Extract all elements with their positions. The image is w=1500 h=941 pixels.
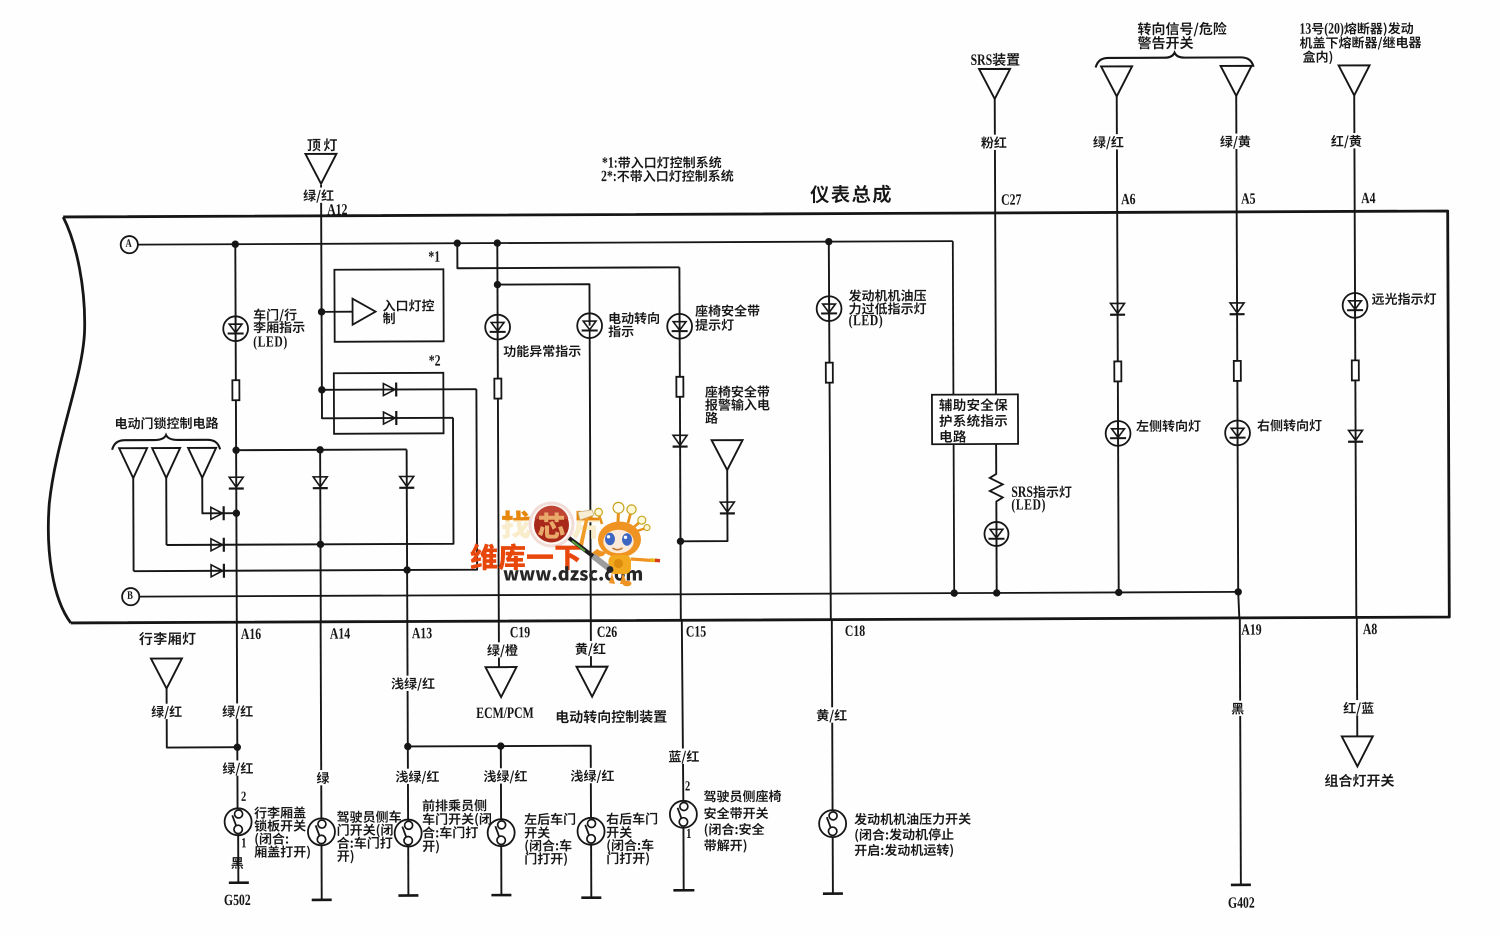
indicator LED 发动机机油压力过低指示灯	[817, 296, 842, 321]
diode D13 (high beam column)	[1348, 430, 1363, 441]
resistor seat-belt lamp	[676, 377, 683, 397]
wire left-rear branch	[500, 746, 502, 819]
wire diode-row top horizontal	[236, 448, 407, 451]
junction dot A14/row2	[317, 541, 324, 548]
ground right-rear switch	[581, 896, 601, 899]
label 电动门锁控制电路	[116, 417, 218, 430]
wire A16 to trunk switch	[236, 622, 239, 808]
indicator LED 车门/行李厢指示	[223, 316, 248, 341]
label 黑 (black wire)	[229, 855, 245, 870]
label pin A5	[1241, 193, 1255, 204]
wire A8 to combination light switch	[1356, 617, 1358, 736]
wire right-rear switch to ground	[590, 845, 592, 898]
box *1 入口灯控制	[334, 269, 443, 341]
label wire color 浅绿/红 (A13 upper)	[390, 676, 437, 692]
resistor left turn	[1114, 361, 1121, 381]
connector triangle 顶灯	[305, 154, 336, 184]
label 座椅安全带报警输入电路	[705, 385, 770, 424]
junction dot rear row / left-rear branch	[497, 742, 504, 749]
wire seat-belt input branch	[680, 470, 727, 541]
label 组合灯开关	[1325, 774, 1394, 788]
label wire color 红/蓝 (A8)	[1342, 700, 1376, 715]
diode D10 (seat belt input)	[720, 502, 735, 513]
wire C15 switch to ground	[682, 828, 684, 890]
diode D5 (*2 lower)	[383, 411, 396, 425]
node A bus terminal circle	[121, 236, 138, 253]
connector triangle turn signal right (A5)	[1221, 66, 1252, 96]
label wire color 浅绿/红 (right rear)	[569, 768, 616, 784]
wire drop from *2 upper to row3	[133, 389, 477, 571]
wire trunk light branch	[167, 688, 238, 747]
switch 驾驶员侧座椅安全带开关	[670, 801, 697, 828]
wire left-rear switch to ground	[500, 846, 502, 895]
diode D3 (A13 branch)	[399, 476, 414, 487]
label pin A13	[412, 628, 432, 639]
diode D1 (A16 branch)	[229, 477, 244, 488]
label G402	[1229, 897, 1255, 908]
wire A13 switch to ground	[407, 846, 409, 895]
switch 行李厢盖锁板开关	[225, 808, 252, 835]
wire seat-belt lamp feed	[457, 242, 679, 268]
label pin A14	[330, 628, 350, 638]
wire oil-pressure LED column (C18)	[829, 242, 831, 620]
wire A6 into box	[1117, 96, 1119, 592]
switch 左后车门开关	[488, 819, 515, 846]
junction dot seat-belt input join	[677, 538, 684, 545]
watermark text 维库一下	[470, 543, 580, 570]
connector triangle SRS装置	[979, 69, 1010, 99]
resistor oil-pressure LED	[826, 363, 833, 383]
junction dot A13/row3	[403, 566, 410, 573]
wire C27 SRS feed	[995, 99, 997, 593]
brace over turn-signal connectors	[1096, 52, 1254, 67]
indicator LED 远光指示灯	[1343, 293, 1368, 318]
wire C19 to ECM	[498, 621, 500, 667]
label pin C26	[597, 626, 616, 637]
label 行李厢盖锁板开关(闭合:厢盖打开)	[254, 806, 310, 859]
switch 驾驶员侧车门开关	[308, 818, 335, 845]
resistor MIL	[494, 379, 501, 399]
label pin A12	[327, 204, 347, 214]
connector triangle 座椅安全带报警输入电路	[712, 440, 743, 470]
wire A5 into box	[1236, 96, 1238, 592]
label SRS指示灯(LED)	[1012, 486, 1072, 513]
wire C18 switch to ground	[832, 837, 834, 894]
connector triangle door-lock 3	[188, 448, 216, 478]
label wire color 浅绿/红 (left rear)	[482, 768, 529, 784]
ground left-rear switch	[491, 894, 511, 897]
label pin 1 seat-belt switch	[687, 829, 691, 838]
junction dot trunk light / A16	[234, 743, 241, 750]
label 驾驶员侧座椅安全带开关(闭合:安全带解开)	[704, 790, 781, 853]
label pin A6	[1121, 194, 1135, 205]
watermark url www.dzsc.com	[504, 566, 643, 581]
ground oil-pressure switch	[823, 892, 843, 895]
label 座椅安全带提示灯	[695, 304, 759, 331]
label SRS装置	[971, 53, 1019, 66]
resistor right turn	[1234, 361, 1241, 381]
label 辅助安全保护系统指示电路	[939, 398, 1007, 443]
wire *2 lower diode row	[322, 417, 453, 420]
label fuse 13号(20)熔断器	[1300, 22, 1422, 64]
label 转向信号/危险警告开关	[1138, 22, 1227, 50]
wire A19 ground column	[1238, 592, 1239, 618]
wire bus B horizontal	[139, 592, 1238, 597]
label 远光指示灯	[1372, 293, 1436, 305]
buffer amp symbol 入口灯控制	[322, 299, 376, 325]
brace door lock circuit	[112, 435, 220, 450]
label 右后车门开关(闭合:车门打开)	[606, 812, 657, 865]
indicator LED SRS指示灯	[984, 522, 1008, 546]
label 仪表总成 (instrument cluster)	[810, 185, 891, 204]
label 左侧转向灯	[1136, 420, 1200, 432]
wire rear-door row	[408, 746, 591, 818]
wire A14 switch to ground	[321, 845, 323, 900]
connector triangle ECM/PCM	[485, 667, 516, 697]
label 左后车门开关(闭合:车门打开)	[524, 813, 575, 866]
label 行李厢灯	[139, 632, 196, 645]
connector triangle EPS unit	[576, 667, 607, 697]
indicator LED 左侧转向灯	[1106, 421, 1131, 446]
watermark mascot	[569, 502, 660, 586]
wire door-lock2 to row2	[165, 478, 167, 545]
label wire color 黑 (A19)	[1230, 701, 1246, 716]
wire A12 from roof light into box	[320, 185, 323, 419]
label ECM/PCM	[476, 707, 533, 718]
resistor door-trunk LED	[232, 380, 239, 400]
label 入口灯控制	[383, 299, 434, 324]
label wire color 绿 (A14)	[315, 770, 331, 785]
node B bus terminal circle	[122, 588, 139, 605]
junction dot bus A / MIL column	[494, 239, 501, 246]
label pin A19	[1241, 624, 1261, 635]
junction dot A12/entry-light box	[318, 308, 325, 315]
wire door-trunk LED column (A16)	[235, 244, 237, 622]
label wire color 黄/红 (C26)	[573, 641, 607, 656]
ground G402	[1231, 884, 1251, 887]
ground A13 switch	[398, 894, 418, 897]
wire MIL column (C19)	[497, 243, 499, 621]
switch 右后车门开关	[577, 818, 604, 845]
label wire color 绿/橙 (C19)	[485, 642, 519, 657]
junction dot MIL/EPS split	[494, 281, 501, 288]
diode D6 (row1)	[211, 506, 224, 520]
junction dot diode row feed left	[232, 446, 239, 453]
wire A13 branch down	[406, 449, 409, 621]
label *2	[429, 355, 440, 365]
wire A13 to passenger door switch	[406, 621, 409, 819]
indicator LED 座椅安全带提示灯	[667, 314, 692, 339]
label wire color 浅绿/红 (A13 lower)	[394, 769, 441, 785]
label 功能异常指示	[504, 345, 581, 358]
diode D4 (*2 upper)	[383, 383, 396, 397]
label *1	[429, 251, 440, 261]
label wire color 粉红 (C27)	[979, 135, 1008, 150]
label pin C18	[845, 625, 864, 636]
wire EPS branch	[497, 284, 589, 326]
resistor SRS (zigzag)	[990, 472, 1003, 504]
wire trunk switch to ground	[237, 835, 239, 882]
connector triangle 行李厢灯	[151, 658, 182, 688]
label 发动机机油压力开关(闭合:发动机停止/开启:发动机运转)	[854, 812, 971, 857]
label wire color 红/黄 (A4)	[1329, 133, 1363, 148]
label 右侧转向灯	[1257, 419, 1321, 431]
wire *2 upper diode row	[322, 388, 477, 391]
junction dot bus B / SRS LED column	[993, 589, 1000, 596]
label G502	[224, 895, 250, 906]
label wire color 绿/红 (A12)	[302, 187, 336, 202]
connector triangle door-lock 1	[119, 448, 147, 478]
label wire color 绿/红 (trunk light)	[150, 704, 184, 719]
junction dot bus A / door-trunk LED column	[232, 240, 239, 247]
junction dot bus B / bus A drop	[950, 589, 957, 596]
wire A14 branch down	[319, 450, 322, 622]
diode D7 (row2)	[211, 538, 224, 552]
wire C18 to oil pressure switch	[831, 620, 834, 811]
indicator LED 功能异常指示	[485, 315, 510, 340]
wire door-lock1 to row3	[132, 478, 134, 571]
label wire color 绿/红 (A16 lower)	[221, 760, 255, 775]
ground A14 switch	[312, 899, 332, 902]
junction dot bus B / left turn LED column	[1115, 589, 1122, 596]
indicator LED 右侧转向灯	[1225, 420, 1250, 445]
label 驾驶员侧车门开关(闭合:车门打开)	[337, 810, 401, 863]
diode D2 (A14 branch)	[313, 477, 328, 488]
wire EPS column down (C26)	[590, 338, 591, 621]
label 发动机机油压力过低指示灯(LED)	[849, 289, 926, 328]
wire A4 into box	[1354, 95, 1356, 617]
instrument cluster box frame (仪表总成)	[47, 211, 1449, 623]
label wire color 蓝/红 (C15)	[667, 748, 701, 763]
label pin A16	[241, 629, 261, 640]
junction dot A13 / rear door row	[404, 743, 411, 750]
connector triangle turn signal left (A6)	[1101, 66, 1132, 96]
connector triangle fuse 13 (A4)	[1339, 65, 1370, 95]
diode D9 (seat belt column)	[673, 435, 688, 446]
connector triangle door-lock 2	[152, 448, 180, 478]
label pin 2 trunk switch	[241, 792, 245, 801]
diode D12 (right turn column)	[1230, 303, 1245, 314]
junction dot A12/diode row1 *2	[318, 386, 325, 393]
label pin C15	[686, 626, 705, 637]
indicator LED 电动转向指示	[577, 313, 602, 338]
watermark magnifier with 芯	[529, 502, 575, 548]
label wire color 绿/黄 (A5)	[1218, 134, 1252, 149]
junction dot bus A / seat-belt lamp branch	[454, 240, 461, 247]
switch 前排乘员侧车门开关	[395, 820, 422, 847]
label 前排乘员侧车门开关(闭合:车门打开)	[422, 799, 491, 853]
label pin A8	[1363, 624, 1377, 635]
wire bus A horizontal	[138, 241, 953, 245]
wire seat-belt lamp column	[679, 267, 680, 620]
label wire color 绿/红 (A16 upper)	[221, 703, 255, 718]
wire bus A right drop to bus B	[953, 241, 954, 593]
label pin C19	[510, 627, 529, 638]
wire A14 to driver door switch	[320, 622, 323, 819]
label pin C27	[1002, 194, 1021, 205]
connector triangle 组合灯开关	[1342, 736, 1373, 766]
label pin 2 seat-belt switch	[685, 781, 689, 790]
wire drop from *2 lower to row2	[166, 418, 454, 545]
ground G502	[229, 881, 249, 884]
box *2 diode pack	[334, 373, 444, 434]
label pin A4	[1361, 193, 1375, 203]
label pin 1 trunk switch	[242, 838, 246, 847]
ground seat-belt switch	[673, 889, 694, 892]
switch 发动机机油压力开关	[819, 810, 846, 837]
box 辅助安全保护系统指示电路	[932, 394, 1018, 444]
junction dot bus A / oil-pressure LED column	[825, 238, 832, 245]
label wire color 绿/红 (A6)	[1091, 134, 1125, 149]
label wire color 黄/红 (C18)	[815, 707, 849, 722]
wire door-lock3 to row1	[202, 478, 236, 514]
junction dot A16/row1	[233, 509, 240, 516]
watermark logo 找芯片 (dzsc)	[0, 0, 1, 1]
label 电动转向控制装置	[557, 710, 667, 724]
label 电动转向指示	[608, 312, 659, 337]
junction dot bus B / right turn LED column	[1234, 588, 1241, 595]
wire C15 to seat belt switch	[682, 620, 684, 801]
resistor high beam	[1352, 360, 1359, 380]
wire A19 to ground G402	[1240, 618, 1241, 885]
diode D8 (row3)	[211, 564, 224, 578]
note *1/2*	[601, 156, 733, 182]
label 顶灯 (roof light)	[307, 138, 337, 151]
wire C26 to EPS unit	[590, 621, 592, 667]
diode D11 (left turn column)	[1110, 303, 1125, 314]
junction dot diode row / A14 branch	[316, 446, 323, 453]
label 车门/行李厢指示(LED)	[253, 308, 304, 350]
